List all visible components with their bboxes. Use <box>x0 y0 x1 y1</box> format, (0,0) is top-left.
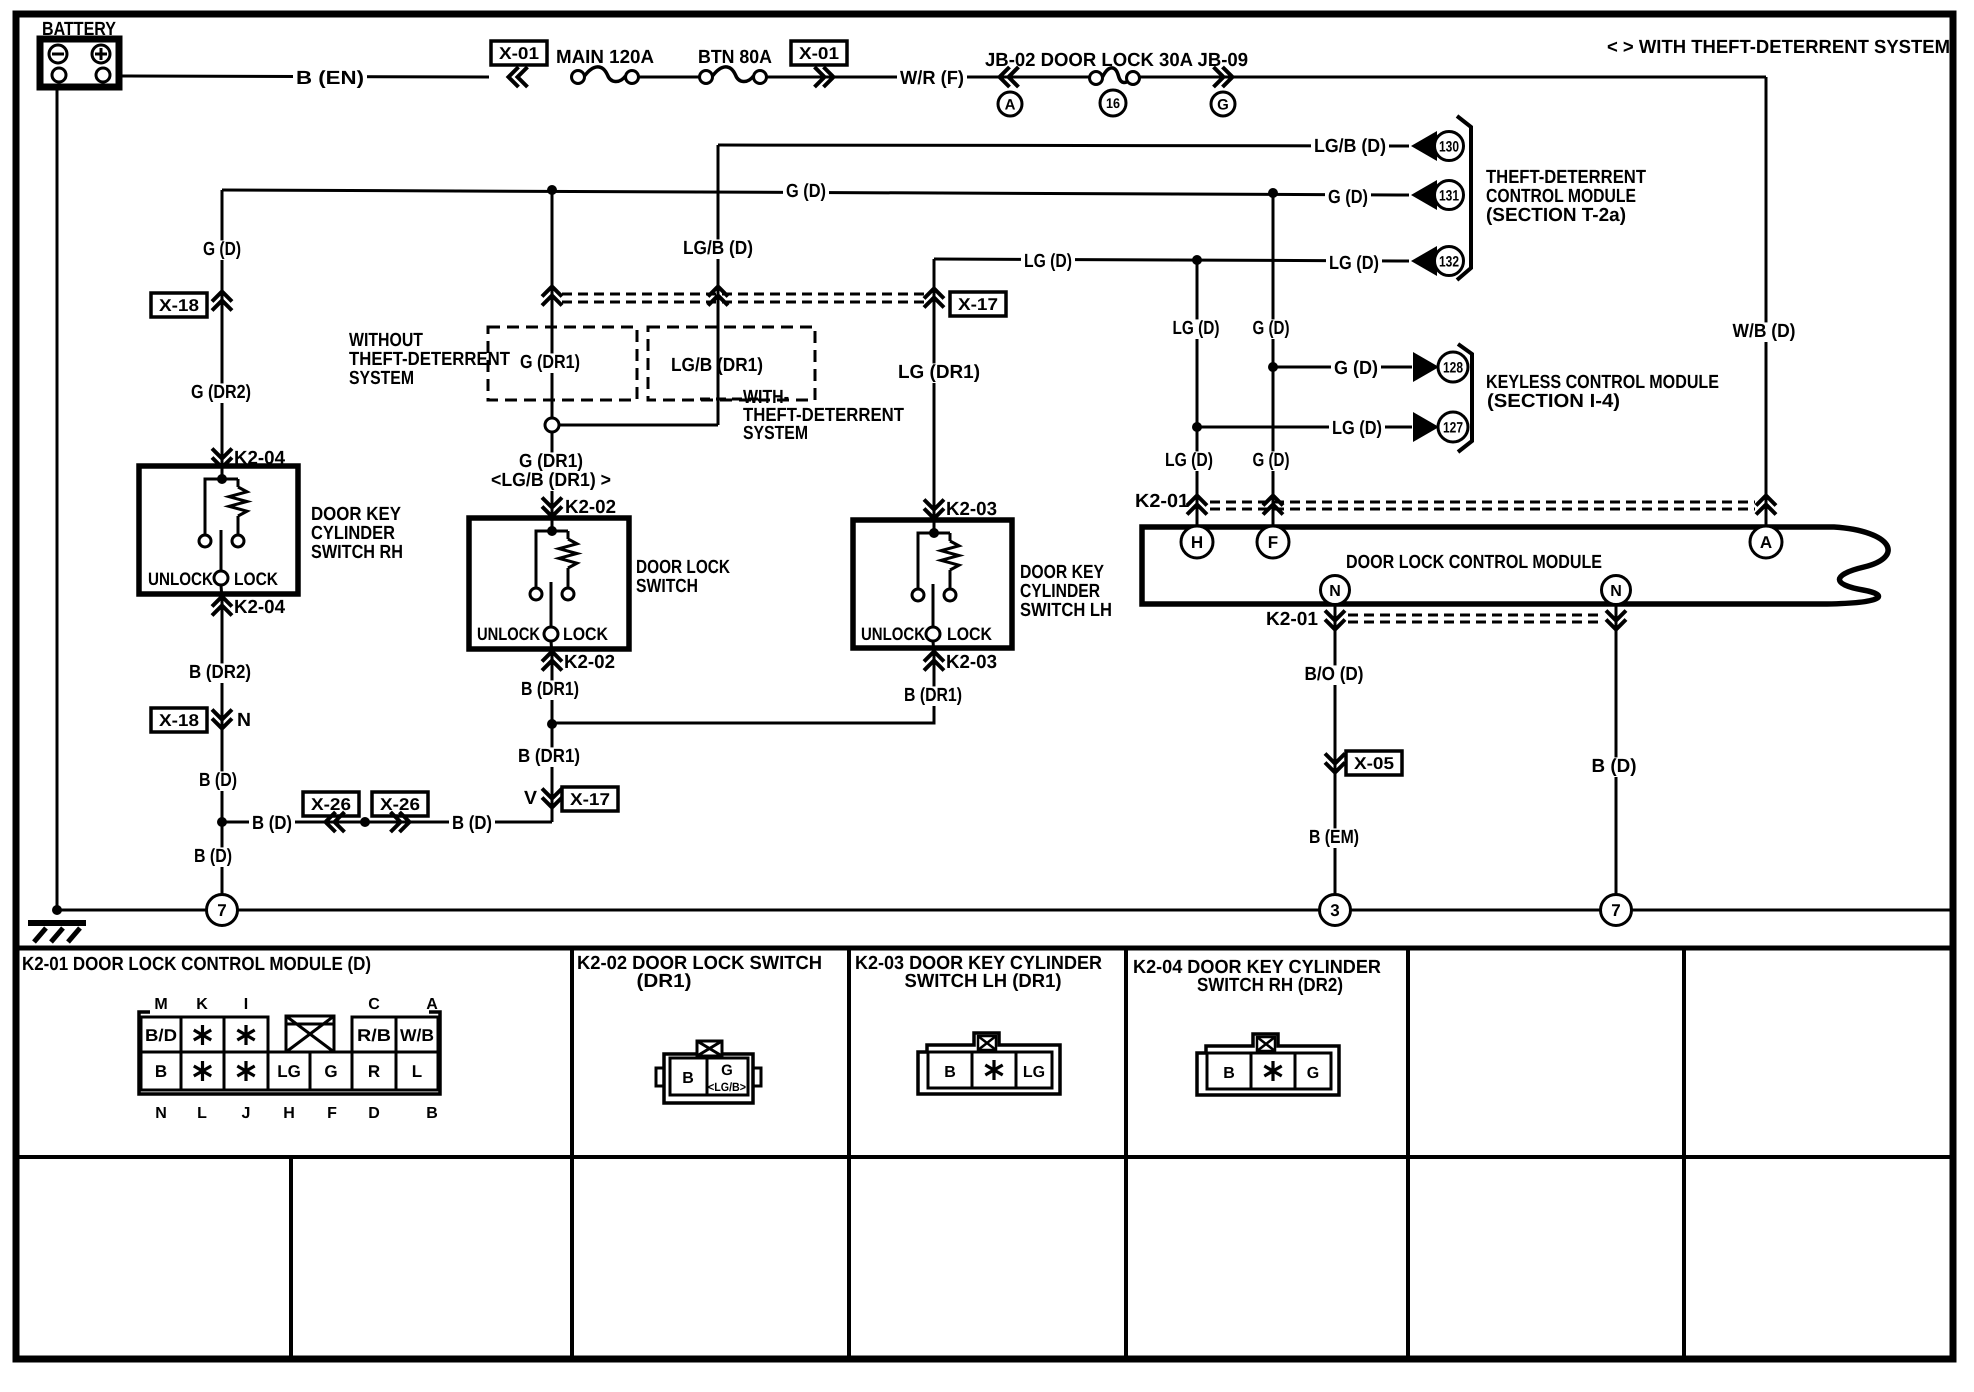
table bottom border <box>13 1356 1956 1363</box>
wire label LG(DR1) <box>895 363 983 383</box>
svg-text:B: B <box>1223 1065 1235 1082</box>
svg-text:L: L <box>197 1105 207 1122</box>
connector K2-04 top chevron <box>212 449 232 459</box>
svg-text:X-01: X-01 <box>799 44 839 63</box>
svg-text:B (DR2): B (DR2) <box>189 662 251 683</box>
svg-text:K2-02: K2-02 <box>565 497 616 518</box>
svg-text:G: G <box>721 1062 733 1079</box>
harness X-17 dashed line upper <box>562 293 925 296</box>
svg-text:THEFT-DETERRENT: THEFT-DETERRENT <box>1486 167 1646 188</box>
svg-text:B: B <box>682 1070 694 1087</box>
svg-text:G (D): G (D) <box>1253 318 1290 339</box>
junction dot X-26 <box>360 817 370 827</box>
switch LH lock contact <box>944 589 956 601</box>
theft-deterrent pin 132 triangle <box>1411 246 1437 276</box>
svg-text:B/D: B/D <box>145 1026 177 1045</box>
svg-text:LOCK: LOCK <box>947 624 992 644</box>
svg-text:J: J <box>242 1105 251 1122</box>
wire label B(D) jumper left <box>249 814 295 834</box>
svg-text:B (DR1): B (DR1) <box>904 685 962 706</box>
door lock switch lock contact <box>562 588 574 600</box>
switch RH pole contact <box>214 571 228 585</box>
connector X-05 label box <box>1346 751 1402 775</box>
door lock switch unlock branch <box>536 531 552 588</box>
fuse MAIN 120A <box>585 67 626 82</box>
connector X-17 chevron on LG/B(D) <box>708 287 728 297</box>
connector X-26 right box <box>372 792 428 816</box>
connector K2-03 top chevron <box>924 500 944 510</box>
svg-text:SWITCH LH: SWITCH LH <box>1020 600 1112 621</box>
battery negative wire down left side <box>56 87 59 910</box>
junction dot G(D) keyless <box>1268 362 1278 372</box>
svg-text:X-26: X-26 <box>380 795 420 814</box>
svg-text:K2-01 DOOR LOCK CONTROL MODULE: K2-01 DOOR LOCK CONTROL MODULE (D) <box>22 954 371 975</box>
fuse BTN 80A <box>713 67 754 82</box>
svg-text:D: D <box>368 1105 380 1122</box>
svg-text:(DR1): (DR1) <box>637 971 692 992</box>
wire B(D) right vertical <box>1615 604 1618 896</box>
battery minus terminal symbol <box>49 45 67 63</box>
wire label G(DR2) <box>188 383 254 403</box>
theft-deterrent module bracket <box>1457 116 1471 280</box>
theft-deterrent pin 131 circle <box>1435 181 1464 210</box>
switch RH lock contact <box>232 535 244 547</box>
switch LH unlock branch <box>918 533 934 589</box>
svg-text:CONTROL MODULE: CONTROL MODULE <box>1486 186 1636 207</box>
door key cylinder switch LH box <box>853 520 1012 648</box>
svg-text:LG (D): LG (D) <box>1332 418 1382 439</box>
module pin N circle left <box>1321 576 1350 605</box>
theft-deterrent pin 130 triangle <box>1411 131 1437 161</box>
table divider x1126 <box>1124 948 1128 1358</box>
door lock switch unlock contact <box>530 588 542 600</box>
connector K2-01 chevron N left <box>1325 611 1345 621</box>
svg-text:G: G <box>324 1062 337 1081</box>
svg-text:M: M <box>154 996 167 1013</box>
svg-text:G (D): G (D) <box>1328 187 1368 208</box>
ground symbol <box>28 920 86 926</box>
connector X-18 bottom chevron <box>212 710 232 720</box>
connector X-01 label box <box>491 41 547 65</box>
svg-text:G: G <box>1307 1065 1319 1082</box>
wire B/O(D) vertical <box>1334 604 1337 896</box>
svg-text:LOCK: LOCK <box>563 624 608 644</box>
switch RH unlock contact <box>199 535 211 547</box>
keyless pin 127 wire <box>1197 426 1412 429</box>
door lock switch pole wire <box>550 582 553 627</box>
switch LH junction dot <box>929 528 939 538</box>
svg-text:B (D): B (D) <box>452 813 492 834</box>
connector X-17 lower box <box>562 787 618 811</box>
svg-text:(SECTION T-2a): (SECTION T-2a) <box>1486 205 1626 226</box>
connector K2-03 bottom chevron <box>924 652 944 662</box>
svg-text:G (DR2): G (DR2) <box>191 382 251 403</box>
wire label B(D) jumper right <box>449 814 495 834</box>
svg-text:SYSTEM: SYSTEM <box>743 423 808 444</box>
svg-text:131: 131 <box>1439 187 1459 204</box>
svg-text:LG/B (D): LG/B (D) <box>683 238 753 259</box>
label LG/B(DR1) in dashed box <box>668 356 766 376</box>
switch LH pole contact <box>926 627 940 641</box>
wire X-01 to JB-02 <box>824 76 1000 79</box>
switch RH pole wire <box>220 530 223 571</box>
wire label G(D) vert lower <box>1250 451 1293 471</box>
svg-text:G (D): G (D) <box>786 181 826 202</box>
svg-text:C: C <box>368 996 380 1013</box>
wire LG/B(D) vertical <box>717 145 720 425</box>
wire LG(DR1) vertical <box>933 259 936 722</box>
harness K2-01 dashed pair <box>1210 501 1755 504</box>
svg-text:130: 130 <box>1439 138 1459 155</box>
node circle G(DR1) <box>545 418 559 432</box>
wire label B(EM) <box>1306 828 1362 848</box>
connector X-26 left box <box>303 792 359 816</box>
module pin A circle <box>1750 526 1782 558</box>
wire W/R(F) segment <box>970 76 1090 79</box>
connector X-26 left chevron <box>326 812 336 832</box>
wire label LG/B(D) right <box>1311 137 1389 157</box>
wire fuse MAIN to BTN <box>638 76 700 79</box>
svg-text:B (EM): B (EM) <box>1309 827 1359 848</box>
table divider x572 <box>570 948 574 1358</box>
connector K2-01 chevron F <box>1263 496 1283 506</box>
with theft-deterrent dashed box <box>648 327 815 400</box>
with theft-deterrent leader dash <box>700 398 760 401</box>
svg-text:G (D): G (D) <box>1334 358 1378 379</box>
connector K2-01 pinout drawing <box>139 1012 440 1094</box>
wire label B(DR1) LH <box>901 686 965 706</box>
svg-text:H: H <box>1191 533 1203 552</box>
connector X-17 lower chevron <box>542 789 562 799</box>
connector K2-04 pinout drawing <box>1197 1034 1339 1095</box>
svg-text:LG (D): LG (D) <box>1329 253 1379 274</box>
svg-text:<LG/B>: <LG/B> <box>708 1080 746 1094</box>
svg-text:LG: LG <box>277 1062 301 1081</box>
connector X-01 second label box <box>791 41 847 65</box>
connector K2-02 pinout drawing <box>656 1068 666 1086</box>
fuse DOOR LOCK pin 16 circle <box>1100 90 1126 116</box>
keyless pin 128 triangle <box>1413 352 1439 382</box>
wire label LG/B(DR1) alt <box>488 471 614 491</box>
door key cylinder switch RH box <box>139 466 298 594</box>
svg-text:UNLOCK: UNLOCK <box>148 569 213 589</box>
wire label LG(D) upper <box>1170 319 1223 339</box>
wire label B(DR1) lower <box>515 747 583 767</box>
keyless pin 127 circle <box>1438 412 1468 442</box>
wire node link G(DR1) to LG/B <box>558 424 718 427</box>
svg-text:16: 16 <box>1106 95 1120 111</box>
svg-text:LOCK: LOCK <box>234 569 278 589</box>
fuse DOOR LOCK 30A <box>1103 68 1132 83</box>
ground circle 7 right <box>1601 895 1632 926</box>
connector K2-02 top chevron <box>542 498 562 508</box>
junction dot ground left <box>52 905 62 915</box>
door lock switch box <box>469 518 629 649</box>
connector X-18 chevron <box>212 292 232 302</box>
svg-text:WITHOUT: WITHOUT <box>349 330 423 351</box>
wire label LG/B(D) on vertical <box>680 239 756 259</box>
svg-text:N: N <box>237 710 251 731</box>
svg-text:3: 3 <box>1330 901 1339 920</box>
svg-text:W/R (F): W/R (F) <box>900 68 964 89</box>
svg-text:B (D): B (D) <box>1592 756 1637 777</box>
switch RH resistor branch top <box>222 478 238 481</box>
svg-text:R/B: R/B <box>357 1026 391 1045</box>
table divider x1684 <box>1682 948 1686 1358</box>
svg-text:G (D): G (D) <box>1253 450 1290 471</box>
connector X-01 second chevron <box>815 67 825 87</box>
svg-text:7: 7 <box>1611 901 1620 920</box>
ground circle 3 <box>1320 895 1351 926</box>
svg-text:B (EN): B (EN) <box>296 68 364 89</box>
connector X-18 box <box>151 293 207 317</box>
battery minus post <box>52 68 66 82</box>
svg-text:KEYLESS CONTROL MODULE: KEYLESS CONTROL MODULE <box>1486 372 1719 393</box>
wire label LG(D) lower <box>1162 451 1216 471</box>
wire label B(DR1) upper <box>518 680 582 700</box>
junction JB-09 pin G circle <box>1211 92 1235 116</box>
svg-text:K2-01: K2-01 <box>1266 609 1318 630</box>
wire label G(D) right <box>1325 188 1371 208</box>
wire label G(D) upper <box>200 240 244 260</box>
wire label B(DR2) <box>186 663 254 683</box>
svg-text:(SECTION I-4): (SECTION I-4) <box>1487 391 1620 412</box>
svg-text:B (DR1): B (DR1) <box>521 679 579 700</box>
wire B(D) jumper horizontal <box>222 821 552 824</box>
junction dot G(D) x1273 <box>1268 188 1278 198</box>
connector K2-01 chevron H <box>1187 496 1207 506</box>
svg-text:SWITCH: SWITCH <box>636 576 698 597</box>
wire G(D)/G(DR2) left vertical upper <box>221 190 224 466</box>
junction dot B(D) x222 <box>217 817 227 827</box>
svg-text:< > WITH THEFT-DETERRENT SYSTE: < > WITH THEFT-DETERRENT SYSTEM <box>1607 37 1950 58</box>
theft-deterrent pin 131 triangle <box>1411 180 1437 210</box>
svg-text:A: A <box>1005 96 1016 113</box>
without theft-deterrent dashed box <box>488 327 637 400</box>
wire label B(EN) <box>293 69 367 89</box>
connector K2-01 chevron A <box>1756 496 1776 506</box>
connector K2-04 bottom chevron <box>212 597 232 607</box>
switch RH lock branch wire <box>237 479 240 487</box>
svg-text:DOOR LOCK: DOOR LOCK <box>636 557 730 578</box>
door lock switch pole contact <box>544 627 558 641</box>
wire G(D) horizontal <box>222 190 1409 195</box>
connector X-18 bottom box <box>151 708 207 732</box>
connector X-17 chevron on G(DR1) <box>542 287 562 297</box>
theft-deterrent pin 132 circle <box>1435 247 1464 276</box>
door lock switch output wire <box>551 641 552 655</box>
wire LG(D) vertical <box>1196 260 1199 525</box>
svg-text:N: N <box>1610 583 1622 600</box>
svg-text:A: A <box>426 996 438 1013</box>
svg-text:SWITCH RH (DR2): SWITCH RH (DR2) <box>1197 975 1343 996</box>
switch LH unlock contact <box>912 589 924 601</box>
svg-text:G: G <box>1217 96 1229 113</box>
theft-deterrent pin 130 circle <box>1435 132 1464 161</box>
table divider x849 <box>847 948 851 1358</box>
wire W/B(D) right vertical <box>1765 77 1768 525</box>
svg-text:UNLOCK: UNLOCK <box>861 624 925 644</box>
svg-text:W/B: W/B <box>400 1026 434 1045</box>
svg-text:B (D): B (D) <box>199 770 237 791</box>
svg-text:132: 132 <box>1439 253 1459 270</box>
svg-text:BTN 80A: BTN 80A <box>698 47 772 68</box>
svg-text:CYLINDER: CYLINDER <box>1020 581 1100 602</box>
svg-text:K2-02: K2-02 <box>564 652 615 673</box>
svg-text:H: H <box>283 1105 295 1122</box>
wire label G(D) vert upper <box>1250 319 1293 339</box>
svg-text:B/O (D): B/O (D) <box>1305 664 1364 685</box>
svg-text:B (D): B (D) <box>194 846 232 867</box>
svg-text:DOOR KEY: DOOR KEY <box>1020 562 1104 583</box>
svg-text:K: K <box>196 996 208 1013</box>
svg-text:X-01: X-01 <box>499 44 539 63</box>
module pin N circle right <box>1602 576 1631 605</box>
svg-text:X-17: X-17 <box>958 295 998 314</box>
switch LH output wire <box>933 641 934 655</box>
switch RH resistor <box>229 487 247 516</box>
door lock control module box <box>1142 527 1888 604</box>
connector X-26 right chevron <box>391 812 401 832</box>
svg-text:X-05: X-05 <box>1354 754 1394 773</box>
wire label G(D) mid <box>783 182 829 202</box>
svg-text:LG (D): LG (D) <box>1165 450 1213 471</box>
table divider x1408 <box>1406 948 1410 1358</box>
svg-text:I: I <box>244 996 248 1013</box>
wire label G(DR1) <box>516 452 586 472</box>
svg-text:JB-02 DOOR LOCK 30A JB-09: JB-02 DOOR LOCK 30A JB-09 <box>985 50 1248 71</box>
switch LH resistor <box>941 541 959 570</box>
wire BTN fuse to X-01 <box>766 76 870 79</box>
svg-text:B (DR1): B (DR1) <box>518 746 580 767</box>
wire label B(D) lower <box>191 847 235 867</box>
switch RH output wire <box>221 585 222 600</box>
svg-text:N: N <box>1329 583 1341 600</box>
battery B+ feed wire B(EN) to X-01 <box>106 76 489 77</box>
table top border <box>13 946 1956 951</box>
junction dot LG(D) keyless <box>1192 422 1202 432</box>
wire label LG(D) right <box>1326 254 1382 274</box>
wire label W/B(D) <box>1730 322 1799 342</box>
connector X-05 chevron <box>1325 754 1345 764</box>
svg-text:SYSTEM: SYSTEM <box>349 368 414 389</box>
door lock switch lock branch <box>552 530 568 533</box>
table middle divider <box>18 1155 1952 1159</box>
junction dot LG(D) x1197 <box>1192 255 1202 265</box>
module pin F circle <box>1257 526 1289 558</box>
svg-text:K2-03: K2-03 <box>946 652 997 673</box>
svg-text:F: F <box>1268 533 1278 552</box>
svg-text:SWITCH RH: SWITCH RH <box>311 542 403 563</box>
svg-text:LG: LG <box>1023 1064 1045 1081</box>
wire label B(D) right <box>1589 757 1640 777</box>
connector K2-02 bottom chevron <box>542 652 562 662</box>
svg-text:K2-03: K2-03 <box>946 499 997 520</box>
svg-text:LG (D): LG (D) <box>1173 318 1220 339</box>
battery plus post <box>96 68 110 82</box>
keyless module bracket <box>1458 344 1472 452</box>
wire label LG(D) keyless <box>1329 419 1385 439</box>
svg-text:B: B <box>426 1105 438 1122</box>
wire G(D) vertical right <box>1272 193 1275 525</box>
svg-text:LG (DR1): LG (DR1) <box>898 362 980 383</box>
table divider x291 <box>289 1157 293 1358</box>
svg-text:UNLOCK: UNLOCK <box>477 624 540 644</box>
ground bus wire <box>57 909 1950 912</box>
wire DOOR LOCK fuse to JB-09 <box>1139 76 1766 79</box>
svg-text:X-18: X-18 <box>159 711 199 730</box>
connector K2-03 pinout drawing <box>918 1033 1060 1094</box>
battery box <box>40 39 119 87</box>
junction JB-02 chevron <box>1000 67 1010 87</box>
ground circle 7 left <box>207 895 238 926</box>
svg-text:CYLINDER: CYLINDER <box>311 523 395 544</box>
svg-text:MAIN 120A: MAIN 120A <box>556 47 654 68</box>
wire label B(D) upper <box>196 771 240 791</box>
switch LH lock branch <box>934 532 950 535</box>
keyless pin 128 wire <box>1273 366 1412 369</box>
svg-text:W/B (D): W/B (D) <box>1733 321 1796 342</box>
svg-text:L: L <box>412 1062 422 1081</box>
svg-text:7: 7 <box>217 901 226 920</box>
svg-text:K2-04: K2-04 <box>234 597 285 618</box>
svg-text:K2-02 DOOR LOCK SWITCH: K2-02 DOOR LOCK SWITCH <box>577 953 822 974</box>
keyless pin 128 circle <box>1438 352 1468 382</box>
wire LG/B(D) horizontal <box>718 145 1409 146</box>
connector K2-01 chevron N right <box>1606 611 1626 621</box>
connector X-17 chevron on LG(DR1) <box>924 289 944 299</box>
switch LH pole wire <box>932 584 935 627</box>
svg-text:SWITCH LH (DR1): SWITCH LH (DR1) <box>905 971 1062 992</box>
svg-text:THEFT-DETERRENT: THEFT-DETERRENT <box>349 349 510 370</box>
svg-text:X-17: X-17 <box>570 790 610 809</box>
svg-text:G (DR1): G (DR1) <box>519 451 583 472</box>
junction JB-02 pin A circle <box>998 92 1022 116</box>
door lock switch junction dot <box>547 526 557 536</box>
connector X-17 label box <box>950 292 1006 316</box>
switch LH input wire <box>933 520 936 533</box>
switch RH unlock branch wire <box>205 479 222 535</box>
svg-text:A: A <box>1760 533 1772 552</box>
svg-text:128: 128 <box>1443 359 1463 376</box>
svg-text:G (D): G (D) <box>203 239 241 260</box>
door lock switch resistor <box>559 539 577 568</box>
switch RH input wire <box>221 466 224 479</box>
wire B(DR2) vertical <box>221 594 224 910</box>
wire G(DR1) vertical <box>551 190 554 822</box>
svg-text:127: 127 <box>1443 419 1463 436</box>
connector X-01 chevron <box>509 67 519 87</box>
wire label W/R(F) <box>897 69 967 89</box>
svg-text:<LG/B (DR1) >: <LG/B (DR1) > <box>491 470 611 491</box>
door lock switch input wire <box>551 518 554 531</box>
module pin H circle <box>1181 526 1213 558</box>
junction dot G(D) x552 <box>547 185 557 195</box>
wire LG(D) horizontal <box>934 259 1409 261</box>
keyless pin 127 triangle <box>1413 412 1439 442</box>
harness K2-01 bottom dashed pair <box>1348 614 1604 617</box>
svg-text:R: R <box>368 1062 380 1081</box>
svg-text:V: V <box>524 788 537 809</box>
wire B(DR1) LH link <box>552 648 934 723</box>
label G(DR1) in dashed box <box>517 353 583 373</box>
svg-text:N: N <box>155 1105 167 1122</box>
switch RH junction dot <box>217 474 227 484</box>
svg-text:G (DR1): G (DR1) <box>520 352 580 373</box>
svg-text:LG (D): LG (D) <box>1024 251 1072 272</box>
svg-text:DOOR LOCK CONTROL MODULE: DOOR LOCK CONTROL MODULE <box>1346 552 1602 573</box>
battery plus terminal symbol <box>92 45 110 63</box>
